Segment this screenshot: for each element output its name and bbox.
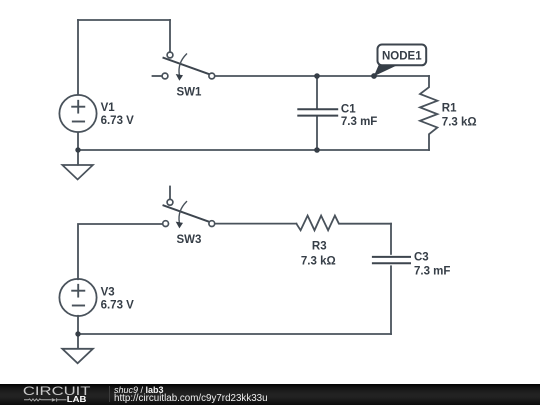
svg-text:V1: V1 [101,102,116,114]
svg-text:C3: C3 [414,252,429,264]
svg-text:V3: V3 [101,287,115,299]
svg-text:7.3 mF: 7.3 mF [341,116,377,128]
svg-text:NODE1: NODE1 [382,51,422,63]
svg-text:SW1: SW1 [177,86,203,98]
svg-text:C1: C1 [341,104,356,116]
svg-text:R1: R1 [442,102,457,114]
svg-text:R3: R3 [312,240,327,252]
svg-text:6.73 V: 6.73 V [101,115,135,127]
svg-text:6.73 V: 6.73 V [101,300,135,312]
svg-text:LAB: LAB [67,394,87,404]
svg-text:7.3 kΩ: 7.3 kΩ [442,117,477,129]
svg-text:7.3 kΩ: 7.3 kΩ [301,256,336,268]
svg-text:SW3: SW3 [177,234,202,246]
svg-text:7.3 mF: 7.3 mF [414,265,450,277]
